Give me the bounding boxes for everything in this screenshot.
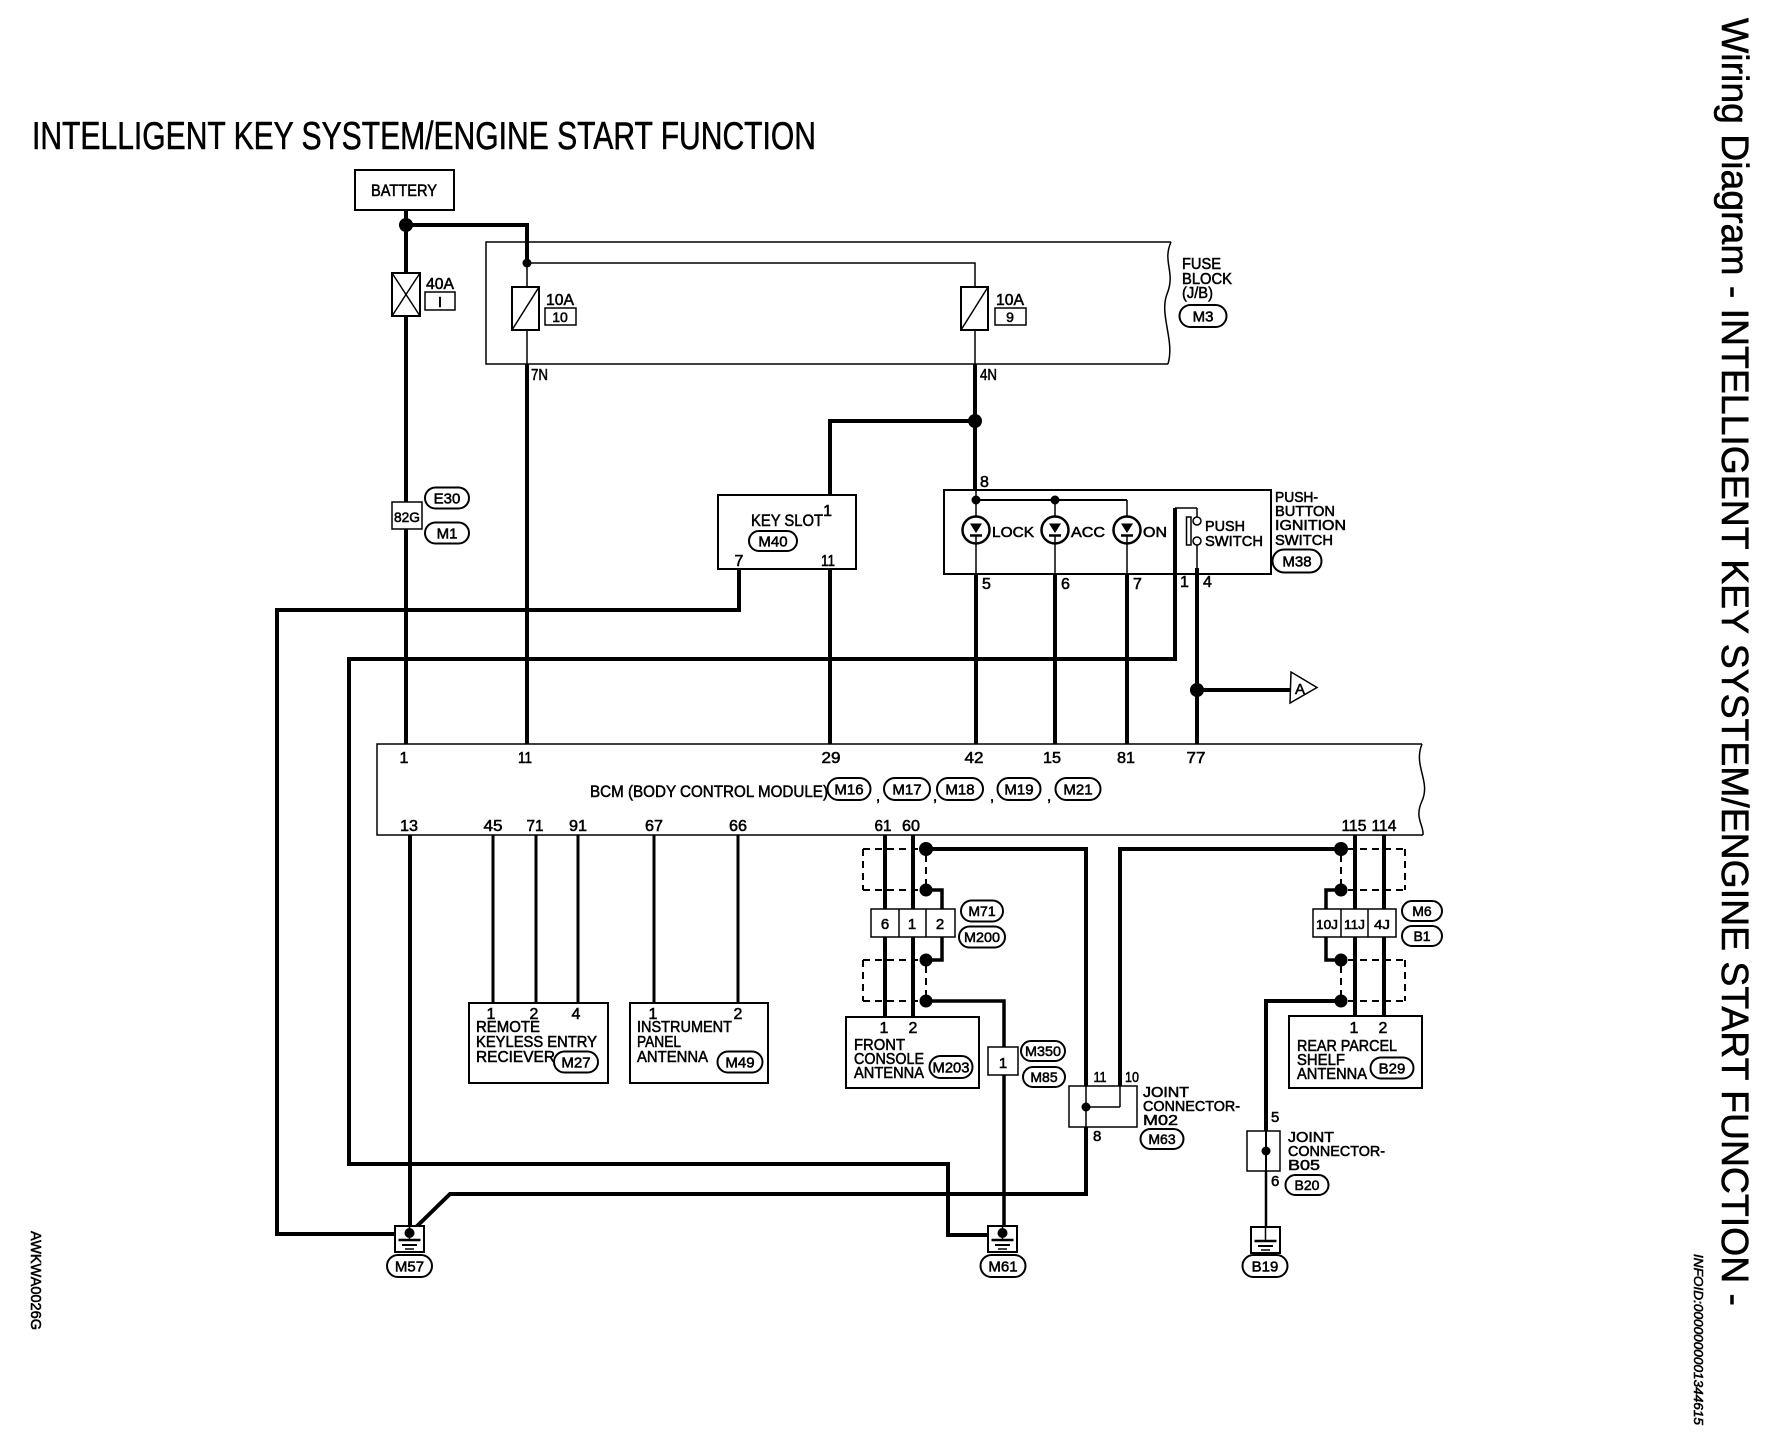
wire M02 pin 8 to ground M57	[411, 1127, 1086, 1232]
svg-text:ANTENNA: ANTENNA	[637, 1049, 708, 1066]
node shield 4 right	[1335, 995, 1348, 1008]
svg-text:INTELLIGENT KEY SYSTEM/ENGINE: INTELLIGENT KEY SYSTEM/ENGINE START FUNC…	[32, 115, 816, 158]
wire to arrow A	[1197, 688, 1292, 692]
shield dashed box upper M6	[1341, 849, 1405, 890]
svg-text:SWITCH: SWITCH	[1275, 532, 1333, 549]
bottom-right infoid	[1691, 1254, 1705, 1425]
svg-text:10: 10	[552, 309, 568, 325]
connector M71/M200 cells	[871, 909, 955, 937]
svg-text:29: 29	[822, 750, 841, 767]
svg-text:8: 8	[980, 474, 989, 491]
connector 1 M350/M85	[988, 1047, 1018, 1075]
svg-text:M02: M02	[1143, 1112, 1178, 1129]
ACC indicator LED	[1042, 517, 1106, 544]
node shield top right	[1334, 842, 1348, 856]
wire fuse10 to 7N	[526, 330, 528, 364]
svg-text:4N: 4N	[980, 367, 997, 384]
svg-text:ON: ON	[1143, 524, 1167, 541]
labels 11 10	[1094, 1069, 1140, 1086]
svg-text:1: 1	[1180, 574, 1189, 591]
svg-text:M17: M17	[892, 781, 921, 798]
wire key slot pin 11 to BCM 29	[828, 569, 832, 744]
svg-text:I: I	[438, 294, 442, 311]
wire 7N to BCM pin 11	[525, 364, 529, 744]
svg-text:1: 1	[880, 1020, 889, 1037]
wire 4N down to push button pin 8	[973, 364, 977, 490]
wire pin 6 to BCM 15	[1053, 574, 1057, 744]
connector M350 oval	[1021, 1041, 1065, 1061]
svg-text:A: A	[1295, 681, 1305, 698]
BCM label	[590, 782, 828, 801]
wire BCM 91	[577, 835, 580, 1003]
wire BCM 66	[737, 835, 740, 1003]
svg-text:B20: B20	[1295, 1177, 1320, 1193]
label joint connector B05	[1288, 1129, 1385, 1174]
node shield 2 right	[1335, 884, 1348, 897]
label push-button ignition switch	[1275, 489, 1346, 549]
node 4N branch	[968, 414, 982, 428]
svg-text:M63: M63	[1148, 1131, 1175, 1147]
inner supply bus	[972, 490, 1128, 517]
connector M38 oval	[1273, 550, 1322, 573]
key slot M40	[718, 495, 856, 570]
instrument panel antenna M49	[630, 1003, 768, 1083]
svg-text:11: 11	[1094, 1069, 1107, 1086]
shield dashed box upper M71	[863, 849, 926, 890]
svg-text:81: 81	[1117, 750, 1135, 767]
connector B1 oval	[1402, 926, 1442, 946]
fuse 10A no.10	[512, 287, 539, 330]
svg-text:ANTENNA: ANTENNA	[854, 1065, 924, 1082]
svg-text:7: 7	[735, 553, 744, 570]
svg-text:SWITCH: SWITCH	[1205, 533, 1263, 550]
svg-text:4J: 4J	[1374, 917, 1390, 932]
svg-text:B29: B29	[1379, 1060, 1406, 1077]
wire BCM 61 to front console antenna 1	[883, 835, 887, 1017]
svg-text:B19: B19	[1252, 1258, 1279, 1275]
svg-text:M21: M21	[1063, 781, 1092, 798]
connector ovals M16 M17 M18 M19 M21	[828, 778, 1101, 805]
svg-text:1: 1	[400, 750, 409, 767]
remote keyless entry reciever M27	[469, 1003, 608, 1083]
wire BCM 60 to front console antenna 2	[911, 835, 915, 1017]
svg-text:6: 6	[1271, 1173, 1279, 1190]
svg-text:M19: M19	[1004, 781, 1033, 798]
label 6	[1271, 1173, 1279, 1190]
ON indicator LED	[1114, 517, 1168, 544]
wire shield to joint connector B05	[1266, 1001, 1341, 1131]
svg-text:67: 67	[645, 818, 663, 835]
svg-text:INFOID:0000000001344615: INFOID:0000000001344615	[1691, 1254, 1705, 1425]
svg-text:60: 60	[902, 818, 920, 835]
node fuse feed branch	[523, 259, 532, 268]
fuse 10A no.9	[961, 287, 988, 330]
wire fuse9 to 4N	[974, 330, 976, 364]
label 8	[1093, 1128, 1101, 1145]
svg-text:M71: M71	[968, 903, 995, 919]
fuse block label	[1182, 256, 1232, 302]
svg-text:5: 5	[982, 576, 991, 593]
svg-text:61: 61	[875, 818, 892, 835]
svg-text:8: 8	[1093, 1128, 1101, 1145]
svg-text:1: 1	[823, 503, 832, 520]
push switch symbol	[1175, 508, 1201, 568]
svg-text:77: 77	[1187, 750, 1206, 767]
svg-text:M1: M1	[437, 525, 458, 542]
svg-text:M16: M16	[834, 781, 863, 798]
wire shield to joint connector M02 pin 11	[926, 849, 1086, 1086]
svg-text:M203: M203	[933, 1059, 970, 1076]
svg-text:11: 11	[518, 750, 532, 767]
wire battery down to fusible link	[404, 210, 408, 273]
svg-text:10A: 10A	[996, 292, 1024, 309]
svg-text:M49: M49	[725, 1054, 754, 1071]
joint connector B05 box	[1247, 1131, 1280, 1171]
svg-text:1: 1	[1350, 1020, 1359, 1037]
svg-text:82G: 82G	[394, 509, 420, 525]
connector M200 oval	[959, 927, 1005, 948]
wire BCM 45	[492, 835, 495, 1003]
wire B05 to ground B19	[1265, 1171, 1268, 1234]
svg-text:10: 10	[1125, 1069, 1139, 1086]
pin labels below switch box	[982, 574, 1212, 593]
node shield lower	[920, 884, 933, 897]
svg-text:10A: 10A	[546, 292, 574, 309]
shield dashed box lower right	[1341, 960, 1405, 1001]
connector M85 oval	[1023, 1067, 1065, 1087]
ground M61	[988, 1226, 1017, 1252]
svg-text:,: ,	[1047, 788, 1051, 805]
svg-text:M6: M6	[1412, 903, 1432, 919]
svg-text:7: 7	[1133, 576, 1142, 593]
wire pin 4 to BCM 77	[1195, 568, 1199, 744]
wire BCM 71	[535, 835, 538, 1003]
svg-text:45: 45	[484, 818, 503, 835]
right vertical title	[1713, 18, 1755, 1306]
svg-text:M350: M350	[1025, 1043, 1061, 1059]
bottom-left figure code	[27, 1231, 44, 1330]
shield dashed box lower	[863, 960, 926, 1001]
svg-text:40A: 40A	[426, 276, 454, 293]
svg-text:M3: M3	[1193, 308, 1214, 325]
svg-text:2: 2	[734, 1006, 743, 1023]
wire BCM 67	[653, 835, 656, 1003]
svg-text:Wiring Diagram - INTELLIGENT K: Wiring Diagram - INTELLIGENT KEY SYSTEM/…	[1713, 18, 1755, 1306]
node shield 4	[920, 995, 933, 1008]
wire BCM 114 to rear parcel antenna 2	[1382, 835, 1386, 1016]
label 40A	[425, 276, 455, 311]
ground B19	[1251, 1227, 1280, 1253]
wire pin 1 to ground M61 via long run	[349, 508, 1175, 1235]
wire shield into 10J	[1326, 890, 1341, 909]
push-button ignition switch M38 box	[944, 490, 1271, 574]
svg-text:4: 4	[1203, 574, 1212, 591]
wires LEDs to box bottom	[976, 544, 1127, 575]
svg-text:ACC: ACC	[1071, 524, 1105, 541]
svg-text:BCM (BODY CONTROL MODULE): BCM (BODY CONTROL MODULE)	[590, 782, 828, 801]
label 4N	[980, 367, 997, 384]
wire thin branch to fuse 9	[527, 263, 975, 287]
svg-text:11: 11	[821, 553, 835, 570]
wire pin 7 to BCM 81	[1125, 574, 1129, 744]
svg-text:7N: 7N	[531, 367, 548, 384]
svg-text:10J: 10J	[1316, 917, 1338, 932]
svg-text:M40: M40	[758, 533, 787, 550]
svg-text:M85: M85	[1030, 1069, 1057, 1085]
junction node battery	[399, 218, 413, 232]
front console antenna M203	[846, 1017, 979, 1088]
wire branch to key slot pin 1	[830, 421, 975, 495]
svg-text:2: 2	[936, 916, 944, 933]
svg-text:2: 2	[909, 1020, 918, 1037]
svg-text:6: 6	[1061, 576, 1070, 593]
node shield 3 right	[1335, 954, 1348, 967]
wire pin 5 to BCM 42	[974, 574, 978, 744]
svg-text:M38: M38	[1282, 553, 1311, 570]
wire key slot pin 7 to ground M57	[277, 569, 739, 1234]
svg-text:B1: B1	[1413, 928, 1430, 944]
page title	[32, 115, 816, 158]
svg-text:BATTERY: BATTERY	[371, 181, 437, 200]
wire front console shield right branch down	[1120, 849, 1341, 1086]
svg-text:,: ,	[990, 788, 994, 805]
svg-text:15: 15	[1043, 750, 1061, 767]
svg-text:M27: M27	[561, 1054, 590, 1071]
svg-text:M18: M18	[945, 781, 974, 798]
connector M6 oval	[1402, 901, 1442, 921]
wire fusible link to BCM 1	[404, 316, 408, 744]
joint connector M02 box	[1069, 1086, 1137, 1127]
svg-text:114: 114	[1372, 818, 1397, 835]
svg-text:1: 1	[999, 1055, 1007, 1072]
svg-text:AWKWA0026G: AWKWA0026G	[27, 1231, 44, 1330]
LOCK indicator LED	[963, 517, 1035, 544]
svg-text:71: 71	[527, 818, 544, 835]
connector 82G	[392, 502, 422, 529]
svg-text:4: 4	[572, 1006, 581, 1023]
svg-text:6: 6	[881, 916, 889, 933]
connector 10J/11J/4J cells	[1313, 909, 1396, 937]
label 5	[1271, 1109, 1279, 1126]
rear parcel shelf antenna B29	[1289, 1016, 1422, 1088]
svg-text:LOCK: LOCK	[992, 524, 1034, 541]
svg-text:9: 9	[1006, 309, 1014, 325]
svg-text:13: 13	[400, 818, 418, 835]
svg-text:M200: M200	[964, 929, 1000, 945]
battery	[355, 170, 454, 210]
connector E30 oval	[425, 488, 469, 509]
svg-text:RECIEVER: RECIEVER	[476, 1049, 555, 1066]
svg-text:91: 91	[569, 818, 587, 835]
svg-text:B05: B05	[1288, 1157, 1320, 1174]
node shield 3	[920, 954, 933, 967]
svg-text:E30: E30	[434, 490, 461, 507]
wire shield to connector M350/M85	[926, 1001, 1004, 1047]
wire thin to fuse 10	[526, 263, 528, 287]
svg-text:42: 42	[965, 750, 984, 767]
svg-text:KEY SLOT: KEY SLOT	[751, 511, 823, 530]
wire below 10J	[1326, 937, 1339, 960]
BCM body control module box	[377, 744, 1425, 835]
svg-text:115: 115	[1342, 818, 1367, 835]
node shield top	[919, 842, 933, 856]
label push switch	[1205, 518, 1263, 550]
node branch A	[1190, 683, 1204, 697]
wire shield drain into cell 2	[926, 890, 942, 909]
svg-text:,: ,	[876, 788, 880, 805]
label 10A 9	[995, 292, 1026, 325]
connector M1 oval	[425, 523, 469, 544]
fusible link 40A I	[392, 273, 420, 316]
svg-text:ANTENNA: ANTENNA	[1297, 1066, 1367, 1083]
wire below cell2	[928, 937, 942, 960]
BCM bottom pin labels	[400, 818, 1397, 835]
ground M57	[395, 1226, 424, 1252]
svg-text:M61: M61	[988, 1258, 1017, 1275]
svg-text:66: 66	[729, 818, 747, 835]
svg-text:2: 2	[1379, 1020, 1388, 1037]
connector M71 oval	[961, 901, 1003, 922]
label joint connector M02	[1143, 1084, 1240, 1129]
connector M63 oval	[1141, 1129, 1184, 1149]
arrow A	[1290, 672, 1317, 703]
connector B20 oval	[1286, 1175, 1329, 1195]
BCM top pin labels	[400, 750, 1206, 767]
wire BCM 115 to rear parcel antenna 1	[1353, 835, 1357, 1016]
svg-text:5: 5	[1271, 1109, 1279, 1126]
svg-text:M57: M57	[395, 1258, 424, 1275]
wire battery to fuse block feed	[406, 225, 527, 264]
wire to ground M61	[1002, 1075, 1006, 1233]
fuse block (J/B) box M3	[486, 242, 1171, 364]
svg-text:11J: 11J	[1344, 917, 1365, 932]
connector M3 oval	[1180, 305, 1227, 327]
label 7N	[531, 367, 548, 384]
label 10A 10	[545, 292, 576, 325]
svg-text:(J/B): (J/B)	[1182, 285, 1213, 302]
label pin 8	[980, 474, 989, 491]
wire BCM 13 to ground M57	[408, 835, 412, 1233]
svg-text:1: 1	[908, 916, 916, 933]
